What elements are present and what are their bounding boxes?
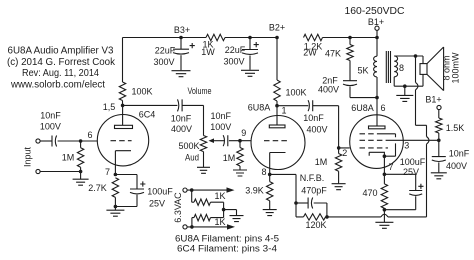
pin 7 label pentode — [388, 162, 393, 172]
6C4 plate bar — [115, 125, 133, 128]
wire input to coupling cap — [40, 140, 52, 142]
resistor 47K — [325, 38, 353, 61]
filament note 1 — [175, 234, 279, 244]
svg-text:2: 2 — [342, 148, 347, 158]
resistor 1M input — [62, 141, 84, 172]
title line 4 — [10, 79, 105, 90]
svg-text:160-250VDC: 160-250VDC — [345, 6, 405, 17]
svg-text:Volume: Volume — [188, 86, 212, 96]
svg-text:100mW: 100mW — [451, 52, 461, 84]
svg-text:100V: 100V — [210, 122, 231, 132]
triode cathode — [270, 153, 286, 175]
arrow filament bottom — [227, 224, 235, 229]
svg-text:1W: 1W — [201, 47, 215, 57]
ground 22uF first — [172, 71, 191, 77]
svg-text:10nF: 10nF — [303, 113, 324, 123]
title line 2 — [7, 57, 116, 68]
label 6.3VAC — [173, 192, 183, 223]
svg-text:Aud: Aud — [185, 153, 199, 163]
svg-text:9: 9 — [241, 128, 246, 138]
ground secondary — [396, 86, 413, 101]
ground 3.9K — [263, 210, 277, 216]
terminal 6.3VAC top — [183, 188, 187, 192]
pentode cathode — [369, 152, 385, 174]
capacitor 10nF 400V coupling 2 — [303, 100, 327, 134]
ground 1M pentode — [332, 184, 346, 190]
svg-text:300V: 300V — [153, 57, 174, 67]
svg-text:3.9K: 3.9K — [245, 186, 264, 196]
ground screen bypass — [431, 173, 447, 179]
node pin8 junction — [268, 173, 272, 177]
resistor 3.9K — [245, 174, 273, 209]
wire filament bottom — [187, 226, 227, 228]
svg-text:7: 7 — [105, 167, 110, 177]
transformer core — [386, 51, 390, 83]
svg-text:300V: 300V — [223, 57, 244, 67]
svg-text:6C4 Filament: pins 3-4: 6C4 Filament: pins 3-4 — [177, 244, 277, 254]
svg-text:10nF: 10nF — [211, 111, 232, 121]
wire rail 1.2K to B1+ — [323, 37, 378, 39]
transformer secondary 8 ohm winding — [394, 56, 404, 86]
svg-text:3: 3 — [404, 141, 409, 151]
wire rail 1K to B2+ — [225, 37, 277, 39]
wire wiper to 10nF — [214, 140, 225, 142]
resistor 1.5K — [436, 110, 465, 141]
pin 9 label — [241, 128, 246, 138]
svg-text:1: 1 — [281, 106, 286, 116]
wire 100K to plate node 2 — [276, 101, 278, 106]
ground pot — [197, 152, 210, 174]
svg-text:10nF: 10nF — [40, 111, 61, 121]
resistor 1K hum balance top — [192, 190, 226, 210]
pentode control grid (dashed) — [360, 147, 389, 149]
node suppressor-cathode tie — [383, 154, 387, 158]
svg-text:6U8A: 6U8A — [248, 103, 271, 113]
svg-text:1.5K: 1.5K — [446, 123, 465, 133]
capacitor 470pF NFB — [296, 186, 327, 217]
label N.F.B. — [300, 173, 325, 183]
pin 6 label 6C4 — [87, 130, 92, 140]
potentiometer 500K Aud — [178, 136, 206, 163]
terminal B1+ top — [345, 6, 405, 38]
wire cap to 6C4 grid — [58, 140, 98, 142]
node filament top junction — [190, 188, 194, 192]
svg-text:6U8A Filament: pins 4-5: 6U8A Filament: pins 4-5 — [175, 234, 279, 244]
capacitor 10nF 100V (to pin 9) — [210, 111, 231, 146]
title line 3 — [22, 68, 99, 79]
terminal input bottom — [36, 169, 40, 173]
wire pentode plate lead — [376, 98, 378, 126]
ground input — [73, 172, 89, 186]
svg-text:B1+: B1+ — [368, 17, 384, 27]
tube 6U8A triode envelope — [251, 116, 305, 170]
svg-text:6.3VAC: 6.3VAC — [173, 192, 183, 223]
wire rail down-left to 100K — [122, 38, 124, 83]
ground 1M triode — [233, 170, 247, 176]
svg-text:6U8A: 6U8A — [351, 103, 374, 113]
svg-text:400V: 400V — [446, 161, 467, 171]
node 2.7K bottom — [114, 205, 118, 209]
node B1+ rail — [375, 36, 379, 40]
svg-text:500K: 500K — [178, 141, 199, 151]
node grid/1M junction — [79, 139, 83, 143]
wire B+ rail segment B3+ left — [123, 37, 207, 39]
node pentode plate junction — [375, 96, 379, 100]
svg-text:470pF: 470pF — [301, 186, 327, 196]
node secondary ground junction — [403, 84, 407, 88]
capacitor 10nF 400V coupling 1 — [171, 99, 192, 134]
capacitor 22uF 300V (second) — [223, 38, 258, 70]
svg-text:1M: 1M — [315, 157, 328, 167]
wire 2nF to plate node — [350, 87, 377, 98]
arrow filament top — [227, 187, 235, 192]
node pentode pin7 junction — [383, 173, 387, 177]
label 6U8A triode — [248, 103, 271, 113]
node pentode grid pin 2 — [337, 146, 347, 158]
tube 6U8A pentode envelope — [350, 115, 404, 169]
ground hum balance — [224, 210, 244, 222]
svg-text:5K: 5K — [357, 66, 368, 76]
capacitor 10nF 400V screen bypass — [432, 140, 470, 172]
triode grid (dashed) — [264, 140, 290, 142]
svg-text:1K: 1K — [214, 217, 225, 227]
node 470 bottom — [383, 208, 387, 212]
svg-text:2W: 2W — [303, 48, 317, 58]
wire 6C4 plate to volume cap — [123, 104, 178, 106]
capacitor 100uF 25V (6C4 cathode) — [115, 175, 173, 209]
transformer primary 5K winding — [357, 38, 377, 98]
wire B2+ down to 100K — [276, 38, 278, 81]
node 6C4 plate (pins 1,5) — [103, 102, 125, 112]
wire cap to pot — [182, 105, 203, 135]
wire NFB vertical up (with hops) — [416, 56, 430, 217]
wire screen to pin 3 — [390, 140, 439, 150]
speaker — [420, 47, 444, 91]
suppressor tie to cathode — [382, 134, 396, 156]
wire pin8 to NFB — [270, 174, 296, 203]
title line 1 — [8, 46, 114, 57]
node NFB left — [294, 201, 298, 205]
ground 2.7K — [106, 207, 124, 217]
label Volume — [188, 86, 212, 96]
capacitor 10nF 100V input — [40, 111, 61, 147]
svg-text:22uF: 22uF — [155, 46, 176, 56]
resistor 1M (6U8A triode grid) — [223, 141, 243, 170]
ground 22uF second — [241, 70, 259, 76]
node NFB tap — [414, 54, 418, 58]
label 6U8A pentode — [351, 103, 385, 113]
svg-text:1M: 1M — [62, 153, 75, 163]
svg-text:100K: 100K — [131, 87, 152, 97]
pentode suppressor grid (dashed) — [360, 133, 383, 135]
resistor 100K (6C4 plate load) — [119, 82, 152, 101]
svg-text:10nF: 10nF — [449, 149, 470, 159]
svg-text:100V: 100V — [40, 122, 61, 132]
svg-text:1,5: 1,5 — [103, 102, 116, 112]
node 22uF junction — [248, 36, 252, 40]
tube 6C4 envelope — [97, 110, 155, 166]
node pin9/1M junction — [238, 139, 242, 143]
node screen junction — [437, 139, 441, 143]
svg-text:100uF: 100uF — [147, 187, 173, 197]
svg-text:6U8A Audio Amplifier V3: 6U8A Audio Amplifier V3 — [8, 46, 114, 57]
capacitor 22uF 300V (first) — [153, 38, 194, 71]
svg-text:B1+: B1+ — [425, 95, 441, 105]
svg-text:6: 6 — [87, 130, 92, 140]
pentode plate bar — [369, 126, 386, 129]
resistor 2.7K — [88, 178, 118, 207]
svg-text:B2+: B2+ — [269, 23, 285, 33]
pentode screen grid (dashed) — [360, 139, 391, 141]
svg-text:25V: 25V — [403, 167, 419, 177]
svg-text:47K: 47K — [325, 49, 341, 59]
svg-text:400V: 400V — [306, 125, 327, 135]
node B3+ — [174, 25, 190, 39]
svg-text:400V: 400V — [171, 124, 192, 134]
node input ground junction — [79, 170, 83, 174]
pin 8 label — [261, 167, 266, 177]
6C4 cathode — [115, 151, 131, 175]
wire 100K to plate node — [122, 101, 124, 106]
svg-text:1M: 1M — [223, 153, 236, 163]
svg-text:6: 6 — [380, 103, 385, 113]
svg-text:N.F.B.: N.F.B. — [300, 173, 325, 183]
wire 47K to 2nF — [349, 61, 351, 81]
svg-text:6C4: 6C4 — [139, 110, 156, 120]
svg-text:8: 8 — [261, 167, 266, 177]
svg-text:7: 7 — [388, 162, 393, 172]
pot wiper arrow — [209, 138, 215, 143]
wire filament top — [187, 189, 226, 191]
pin 7 label 6C4 — [105, 167, 110, 177]
wire NFB to speaker (horizontal with hop) — [327, 214, 427, 217]
terminal input top — [36, 139, 40, 143]
wire input bottom — [40, 171, 81, 173]
ground 470 — [375, 210, 393, 229]
svg-text:120K: 120K — [305, 220, 326, 230]
resistor 1K 1W — [201, 34, 225, 57]
node filament bottom junction — [190, 225, 194, 229]
svg-text:2.7K: 2.7K — [88, 183, 107, 193]
filament note 2 — [177, 244, 277, 254]
resistor 120K NFB — [296, 203, 327, 230]
triode plate bar — [269, 125, 285, 128]
node hum balance mid — [222, 208, 226, 212]
terminal 6.3VAC bottom — [183, 225, 187, 229]
wire 10nF to 6U8A grid — [229, 140, 251, 142]
resistor 1M (pentode grid) — [315, 148, 342, 184]
svg-text:10nF: 10nF — [171, 114, 192, 124]
svg-text:470: 470 — [362, 188, 377, 198]
resistor 1K hum balance bottom — [192, 210, 226, 228]
capacitor 100uF 25V (pentode cathode) — [384, 157, 425, 210]
wire coupling cap to pentode grid — [313, 106, 350, 148]
svg-text:1K: 1K — [214, 191, 225, 201]
label 8 ohm 100mW — [442, 52, 461, 84]
svg-text:25V: 25V — [149, 199, 165, 209]
resistor 1.2K 2W — [303, 34, 322, 57]
svg-text:8: 8 — [399, 63, 404, 73]
svg-text:100K: 100K — [285, 88, 306, 98]
node NFB right — [325, 215, 329, 219]
node triode plate pin 1 — [275, 104, 286, 116]
node 47K top — [348, 36, 352, 40]
node B2+ — [269, 23, 285, 40]
svg-text:22uF: 22uF — [225, 45, 246, 55]
svg-text:100uF: 100uF — [400, 157, 426, 167]
resistor 470 — [362, 174, 387, 209]
svg-text:www.solorb.com/elect: www.solorb.com/elect — [10, 79, 105, 90]
svg-text:Rev: Aug. 11, 2014: Rev: Aug. 11, 2014 — [22, 68, 99, 79]
svg-text:Input: Input — [23, 146, 33, 167]
wire 6C4 plate lead — [122, 105, 124, 125]
capacitor 2nF 400V — [318, 76, 357, 95]
node pin7 junction — [114, 173, 118, 177]
wire triode plate lead — [276, 106, 278, 125]
wire secondary top to speaker — [394, 56, 423, 64]
svg-text:400V: 400V — [318, 85, 339, 95]
resistor 100K (triode plate load) — [274, 80, 307, 101]
label Input — [23, 146, 33, 167]
6C4 grid (dashed) — [111, 140, 132, 142]
terminal B1+ right — [425, 95, 441, 110]
wire secondary bottom to speaker — [394, 74, 423, 86]
svg-text:(c) 2014 G. Forrest Cook: (c) 2014 G. Forrest Cook — [7, 57, 116, 68]
wire triode plate to coupling cap — [277, 105, 308, 107]
svg-text:B3+: B3+ — [174, 25, 190, 35]
